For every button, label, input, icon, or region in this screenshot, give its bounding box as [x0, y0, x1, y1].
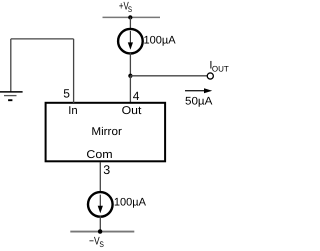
svg-text:Mirror: Mirror — [91, 126, 122, 138]
svg-text:Out: Out — [122, 105, 143, 117]
current source I2 100uA (bottom) — [88, 192, 113, 217]
wire I2 to -VS rail — [99, 216, 101, 231]
wire pin 3 — [99, 162, 101, 193]
output terminal (open circle) — [207, 73, 213, 79]
wire I1 to node A — [129, 53, 131, 76]
current direction arrow 50uA — [185, 88, 212, 93]
svg-text:S: S — [99, 240, 104, 249]
wire node A to output terminal — [130, 75, 207, 77]
svg-text:OUT: OUT — [212, 65, 229, 74]
current source I1 100uA (top) — [118, 29, 143, 54]
svg-text:4: 4 — [133, 89, 140, 103]
mirror block U1 — [46, 103, 166, 162]
wire rail to current source I1 — [129, 17, 131, 29]
node -VS junction dot — [98, 229, 103, 234]
svg-text:100µA: 100µA — [114, 196, 147, 208]
+VS supply rail — [103, 16, 161, 18]
wire pin 5 — [73, 39, 75, 103]
svg-text:S: S — [128, 5, 132, 14]
svg-text:100µA: 100µA — [144, 35, 177, 47]
node +VS junction dot — [128, 15, 132, 19]
svg-text:Com: Com — [86, 149, 112, 161]
wire down to ground (vertical) — [10, 39, 12, 92]
wire node A to pin 4 — [129, 76, 131, 103]
ground symbol — [0, 92, 23, 100]
svg-text:3: 3 — [103, 163, 110, 177]
svg-text:5: 5 — [63, 87, 70, 101]
wire pin5 to ground (horizontal) — [11, 38, 74, 40]
-VS supply rail — [70, 231, 134, 233]
node A junction dot — [128, 74, 132, 78]
svg-text:50µA: 50µA — [185, 95, 213, 107]
svg-text:In: In — [68, 105, 77, 117]
